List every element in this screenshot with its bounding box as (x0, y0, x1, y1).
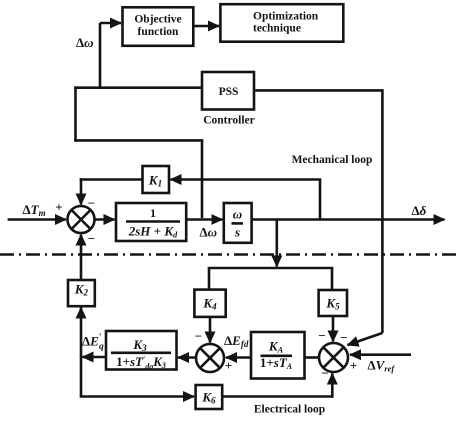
svg-text:Controller: Controller (203, 115, 255, 127)
svg-text:Objective: Objective (134, 14, 181, 26)
svg-text:−: − (88, 231, 95, 246)
svg-text:−: − (195, 329, 202, 344)
svg-text:1: 1 (150, 206, 156, 220)
svg-text:−: − (88, 196, 95, 211)
svg-text:ΔVref: ΔVref (368, 358, 396, 374)
svg-text:Optimization: Optimization (253, 11, 319, 23)
svg-text:PSS: PSS (219, 86, 239, 98)
svg-text:Δδ: Δδ (412, 203, 427, 218)
svg-text:Electrical loop: Electrical loop (254, 404, 325, 416)
svg-text:−: − (318, 328, 325, 343)
svg-text:ΔTm: ΔTm (23, 202, 46, 218)
svg-text:ΔEfd: ΔEfd (224, 333, 249, 349)
svg-text:+: + (350, 358, 357, 373)
svg-text:ω: ω (233, 207, 242, 222)
svg-text:+: + (55, 200, 62, 215)
svg-text:s: s (234, 225, 240, 240)
svg-text:Δω: Δω (76, 35, 94, 50)
svg-text:−: − (340, 330, 347, 345)
svg-text:2sH + Kd: 2sH + Kd (128, 224, 178, 240)
svg-text:Δω: Δω (200, 225, 218, 240)
svg-text:−: − (321, 366, 328, 381)
svg-text:function: function (138, 26, 180, 38)
svg-text:+: + (225, 358, 232, 373)
svg-text:1+sT′doK3: 1+sT′doK3 (116, 354, 166, 371)
svg-text:Mechanical loop: Mechanical loop (292, 154, 373, 166)
svg-text:ΔE′q: ΔE′q (82, 333, 104, 352)
svg-text:technique: technique (253, 23, 301, 35)
